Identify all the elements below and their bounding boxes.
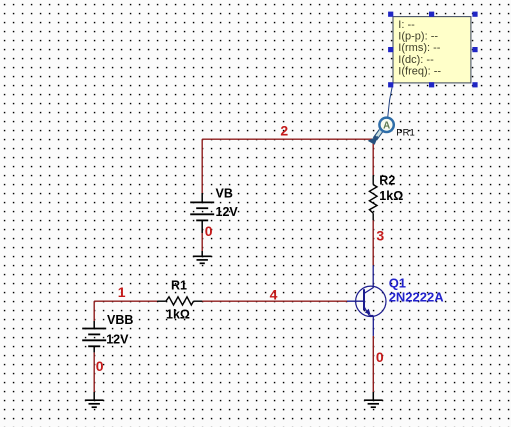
- value label 12V (VBB): [106, 333, 129, 347]
- value label 1kΩ (R2): [379, 189, 403, 203]
- wire net 3 (R2 to Q1 collector): [372, 220, 374, 265]
- ground below Q1 emitter: [364, 392, 383, 407]
- net label 2: [280, 122, 288, 138]
- value label 1kΩ (R1): [166, 308, 190, 322]
- wire net 1 horizontal (VBB to R1): [94, 300, 157, 302]
- net label 0 (below VBB): [96, 358, 104, 374]
- value label 2N2222A (Q1): [389, 290, 445, 305]
- svg-text:A: A: [383, 120, 390, 131]
- wire net 0 (Q1 emitter to ground): [372, 336, 374, 392]
- svg-text:VB: VB: [216, 187, 233, 201]
- probe readout text I(rms):: [398, 42, 440, 54]
- svg-text:Q1: Q1: [389, 276, 406, 291]
- svg-text:0: 0: [96, 358, 104, 374]
- label R2: [379, 174, 395, 188]
- battery VBB (DC source): [82, 321, 106, 352]
- probe PR1 lead line to readout box: [388, 83, 393, 117]
- svg-text:R2: R2: [379, 174, 395, 188]
- current probe PR1 arrow: [368, 130, 382, 144]
- label PR1: [396, 127, 414, 138]
- transistor Q1 (NPN 2N2222A): [347, 265, 386, 336]
- svg-text:0: 0: [205, 223, 213, 239]
- svg-text:I(p-p): --: I(p-p): --: [398, 31, 438, 43]
- wire net 2 horizontal segment: [202, 138, 373, 140]
- svg-text:2: 2: [280, 122, 288, 138]
- wire net 2 vertical segment left (to VB +): [201, 139, 203, 193]
- net label 4: [270, 287, 278, 303]
- label Q1: [389, 276, 406, 291]
- svg-text:2N2222A: 2N2222A: [389, 290, 445, 305]
- net label 1: [118, 284, 126, 300]
- svg-text:R1: R1: [171, 279, 187, 293]
- wire net 0 below VBB: [93, 352, 95, 392]
- svg-text:I(dc): --: I(dc): --: [398, 54, 434, 66]
- svg-text:I(freq): --: I(freq): --: [398, 66, 441, 78]
- svg-text:I: --: I: --: [398, 19, 415, 31]
- resistor R2: [369, 175, 377, 220]
- svg-text:12V: 12V: [106, 333, 129, 347]
- svg-text:1kΩ: 1kΩ: [166, 308, 190, 322]
- net label 0 (below Q1): [376, 349, 384, 365]
- label VBB: [107, 313, 133, 327]
- wire net 4 (R1 to Q1 base): [202, 300, 347, 302]
- resistor R1: [157, 297, 202, 305]
- current probe PR1 circle (A): [379, 118, 393, 132]
- svg-text:1kΩ: 1kΩ: [379, 189, 403, 203]
- svg-text:VBB: VBB: [107, 313, 133, 327]
- probe readout text I:: [398, 19, 415, 31]
- selection handles of readout box: [388, 12, 478, 88]
- ground below VBB: [85, 392, 104, 407]
- wire net 2 vertical segment right (to R2): [372, 139, 374, 175]
- value label 12V (VB): [216, 205, 239, 219]
- probe readout text I(dc):: [398, 54, 434, 66]
- svg-text:0: 0: [376, 349, 384, 365]
- probe readout text I(freq):: [398, 66, 441, 78]
- svg-text:3: 3: [376, 227, 384, 243]
- wire net 1 vertical (to VBB +): [93, 301, 95, 321]
- svg-text:PR1: PR1: [396, 127, 414, 138]
- svg-text:I(rms): --: I(rms): --: [398, 42, 440, 54]
- wire net 0 below VB: [201, 233, 203, 251]
- svg-text:1: 1: [118, 284, 126, 300]
- svg-text:4: 4: [270, 287, 278, 303]
- battery VB (DC source): [190, 193, 214, 233]
- svg-text:12V: 12V: [216, 205, 239, 219]
- net label 3: [376, 227, 384, 243]
- net label 0 (below VB): [205, 223, 213, 239]
- label VB: [216, 187, 233, 201]
- label R1: [171, 279, 187, 293]
- ground below VB: [193, 251, 212, 263]
- probe readout box: [393, 17, 471, 83]
- probe readout text I(p-p):: [398, 31, 438, 43]
